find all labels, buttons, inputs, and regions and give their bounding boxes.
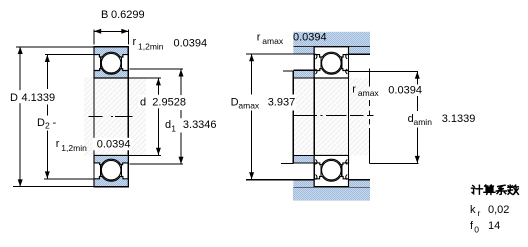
svg-text:d: d: [165, 119, 171, 131]
dimension D2 extension lines: [45, 54, 94, 56]
dimension D arrow bottom: [18, 179, 23, 186]
right bearing inner ring bottom section: [314, 155, 348, 164]
right bearing white interior: [314, 47, 348, 78]
ball bottom: [101, 160, 121, 180]
bearing inner ring bottom section: [94, 155, 128, 164]
svg-text:1,2min: 1,2min: [61, 143, 87, 153]
dimension damin line: [416, 71, 418, 84]
dimension D line: [19, 47, 21, 187]
shaft seat line bottom: [293, 154, 314, 156]
housing shoulder line top-right: [349, 53, 370, 55]
svg-text:3.3346: 3.3346: [183, 119, 217, 131]
dimension D2 line: [46, 55, 48, 89]
right cage lines top: [320, 57, 322, 69]
dimension B arrow right: [121, 29, 128, 34]
shaft shoulder top line: [293, 69, 314, 71]
dimension B line: [94, 30, 129, 32]
ball top: [101, 53, 121, 73]
right ball bottom: [322, 160, 342, 180]
svg-text:r: r: [352, 84, 356, 96]
housing shoulder line top-left / Damax extension top: [246, 53, 314, 55]
housing bore line bottom: [293, 186, 370, 188]
heading 计算系数 (calculation factors) drawn as strokes: [472, 185, 519, 194]
svg-text:4.1339: 4.1339: [22, 92, 56, 104]
dimension D2 arrow bottom: [45, 171, 50, 178]
dimension Damax line: [251, 54, 253, 96]
svg-text:r: r: [478, 208, 481, 218]
right ball top: [322, 53, 342, 73]
housing shoulder block top-right: [349, 47, 370, 54]
svg-text:0.0394: 0.0394: [97, 139, 131, 151]
chamfer marks right bearing: [315, 54, 347, 180]
right bearing outer ring bottom section: [314, 176, 348, 186]
svg-text:r: r: [257, 31, 261, 43]
dimension damin arrow top: [415, 72, 420, 79]
housing bottom band: [293, 187, 370, 201]
dimension B extension lines: [93, 30, 95, 45]
dimension D extension lines: [16, 46, 94, 48]
dimension d1 arrow bottom: [179, 157, 184, 164]
dimension d arrow top: [156, 78, 161, 85]
bearing inner ring top section: [94, 69, 128, 78]
svg-text:1,2min: 1,2min: [138, 41, 164, 51]
dimension damin extension top: [349, 70, 419, 72]
svg-text:2: 2: [45, 121, 50, 131]
dimension d1 arrow top: [179, 69, 184, 76]
reference line at housing edge: [369, 69, 371, 87]
right cage lines bottom: [320, 164, 322, 176]
right figure hatch backdrop (shaft and housing section): [293, 78, 369, 155]
dimension D arrow top: [18, 47, 23, 54]
left figure centerline: [88, 116, 102, 118]
svg-text:3.1339: 3.1339: [442, 113, 476, 125]
svg-text:0.0394: 0.0394: [174, 38, 208, 50]
svg-text:0,02: 0,02: [488, 204, 509, 216]
dimension d extension lines: [129, 77, 161, 79]
housing top band: [293, 32, 370, 47]
shaft shoulder block top: [293, 70, 314, 78]
svg-text:r: r: [133, 36, 137, 48]
right bearing outer ring top section: [314, 47, 348, 57]
shaft shoulder block bottom: [293, 155, 314, 163]
svg-text:amin: amin: [414, 117, 433, 127]
dimension Damax arrow bottom: [249, 172, 254, 179]
svg-text:d: d: [140, 97, 146, 109]
dimension d1 extension lines: [130, 68, 184, 70]
svg-text:0.0394: 0.0394: [388, 85, 422, 97]
shaft shoulder bottom line: [293, 162, 314, 164]
svg-text:k: k: [470, 204, 476, 216]
dimension B arrow left: [94, 29, 101, 34]
dimension damin arrow bottom: [415, 156, 420, 163]
svg-text:D: D: [37, 117, 45, 129]
svg-text:amax: amax: [262, 36, 284, 46]
svg-text:3.937: 3.937: [268, 96, 296, 108]
svg-text:0.6299: 0.6299: [111, 9, 145, 21]
svg-text:14: 14: [488, 220, 500, 232]
dimension d1 line: [180, 69, 182, 95]
bearing outline box: [94, 47, 128, 187]
shaft end line: [292, 70, 294, 163]
right bearing inner ring top section: [314, 69, 348, 78]
dimension d line: [157, 78, 159, 155]
dimension d arrow bottom: [156, 148, 161, 155]
bearing outer ring bottom section: [94, 176, 128, 186]
dimension D2 arrow top: [45, 55, 50, 62]
housing shoulder line bottom-left / Damax extension bottom: [246, 179, 314, 181]
dimension damin extension bottom: [370, 162, 419, 164]
right bearing outline box: [314, 47, 348, 187]
svg-text:2.9528: 2.9528: [152, 97, 186, 109]
cage lines bottom: [100, 164, 102, 176]
svg-text:amax: amax: [238, 100, 260, 110]
svg-text:1: 1: [171, 123, 176, 133]
dimension Damax arrow top: [249, 54, 254, 61]
left figure hatch backdrop: [84, 77, 146, 156]
cage lines top: [100, 57, 102, 69]
svg-text:D: D: [231, 96, 239, 108]
housing shoulder block top-left: [293, 47, 314, 54]
svg-text:0: 0: [474, 224, 479, 234]
shaft seat line top: [293, 77, 314, 79]
svg-text:0.0394: 0.0394: [293, 31, 327, 43]
housing bore line top: [293, 46, 370, 48]
svg-text:B: B: [101, 9, 108, 21]
svg-text:-: -: [53, 117, 57, 129]
right figure centerline: [293, 114, 317, 116]
housing shoulder block bottom-left: [293, 180, 314, 187]
housing shoulder block bottom-right: [349, 180, 370, 187]
svg-text:D: D: [10, 92, 18, 104]
housing shoulder line bottom-right: [349, 179, 370, 181]
svg-text:r: r: [56, 138, 60, 150]
bearing outer ring top section: [94, 47, 128, 57]
svg-text:amax: amax: [358, 88, 380, 98]
